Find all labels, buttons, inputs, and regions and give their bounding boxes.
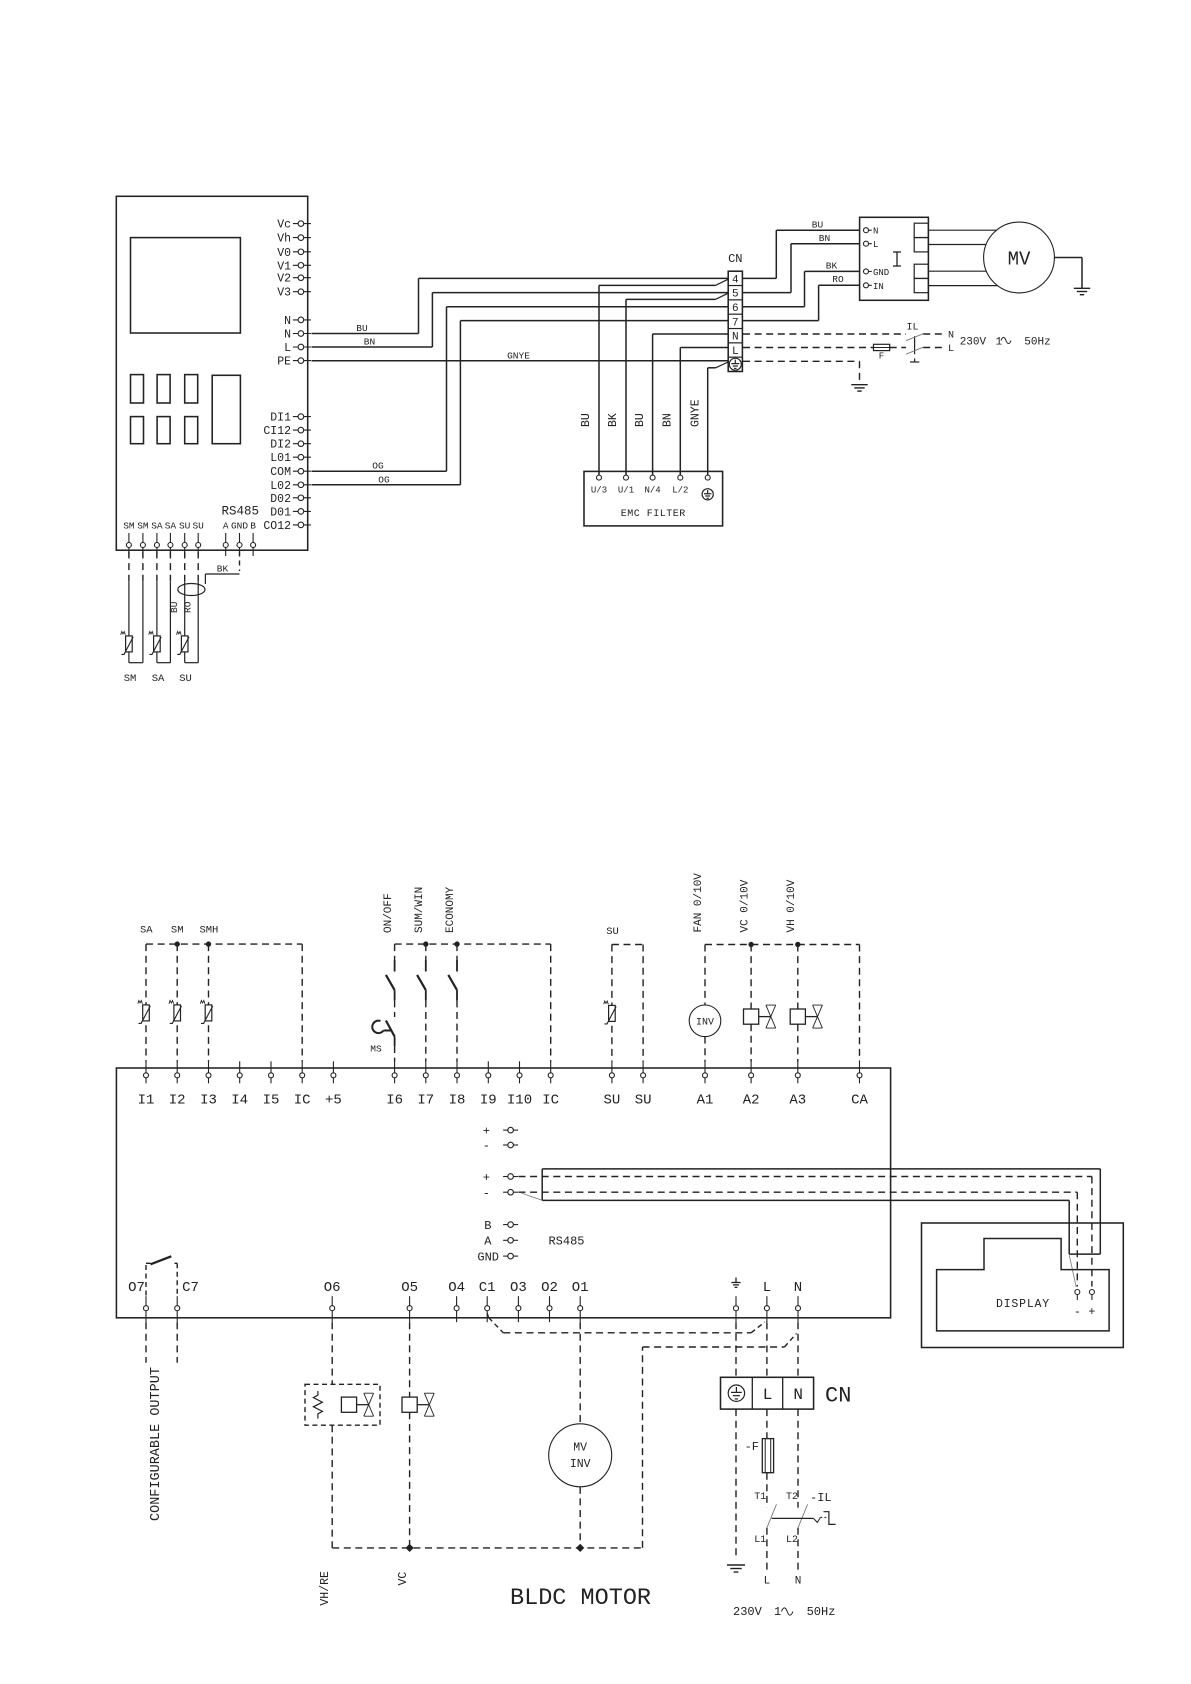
svg-text:SU: SU: [603, 1093, 620, 1109]
svg-text:+: +: [483, 1125, 490, 1139]
svg-text:I5: I5: [263, 1093, 280, 1109]
svg-text:GND: GND: [231, 521, 248, 532]
svg-text:I9: I9: [480, 1093, 497, 1109]
svg-text:CN: CN: [825, 1384, 851, 1409]
svg-text:Vc: Vc: [277, 219, 291, 232]
svg-text:C7: C7: [182, 1280, 199, 1296]
svg-text:A3: A3: [789, 1093, 806, 1109]
svg-text:VC 0/10V: VC 0/10V: [739, 879, 751, 932]
svg-text:L: L: [764, 1576, 771, 1588]
svg-text:IC: IC: [542, 1093, 559, 1109]
svg-text:N: N: [284, 315, 291, 328]
svg-text:OG: OG: [372, 461, 384, 472]
svg-text:L02: L02: [270, 480, 291, 493]
svg-text:A: A: [484, 1235, 492, 1249]
svg-text:PE: PE: [277, 356, 291, 369]
svg-text:SA: SA: [152, 673, 165, 685]
svg-text:CI12: CI12: [263, 425, 291, 438]
svg-text:N: N: [948, 331, 954, 342]
svg-text:O7: O7: [128, 1280, 145, 1296]
svg-text:V2: V2: [277, 273, 291, 286]
svg-text:MV: MV: [1008, 249, 1031, 271]
svg-text:VH/RE: VH/RE: [319, 1571, 332, 1606]
svg-text:-: -: [483, 1187, 490, 1201]
svg-text:SU: SU: [179, 673, 192, 685]
svg-text:I1: I1: [138, 1093, 155, 1109]
svg-text:230V: 230V: [733, 1605, 763, 1619]
svg-text:CN: CN: [728, 252, 742, 266]
svg-text:BU: BU: [169, 601, 180, 613]
svg-text:B: B: [250, 521, 256, 532]
svg-text:ECONOMY: ECONOMY: [445, 886, 457, 933]
svg-text:SM: SM: [137, 521, 149, 532]
svg-text:SM: SM: [123, 521, 135, 532]
svg-text:GNYE: GNYE: [507, 350, 530, 361]
svg-text:BN: BN: [819, 233, 830, 244]
svg-text:+5: +5: [325, 1093, 342, 1109]
svg-text:RS485: RS485: [548, 1235, 584, 1249]
svg-text:A: A: [223, 521, 229, 532]
svg-text:O1: O1: [572, 1280, 589, 1296]
svg-text:D02: D02: [270, 493, 291, 506]
svg-text:L2: L2: [786, 1535, 798, 1546]
svg-text:O4: O4: [448, 1280, 465, 1296]
svg-text:CONFIGURABLE OUTPUT: CONFIGURABLE OUTPUT: [149, 1367, 164, 1521]
svg-text:O5: O5: [401, 1280, 418, 1296]
svg-text:I3: I3: [200, 1093, 217, 1109]
svg-text:N: N: [284, 329, 291, 342]
svg-text:SU: SU: [179, 521, 191, 532]
svg-text:1: 1: [774, 1605, 781, 1619]
svg-text:IC: IC: [294, 1093, 311, 1109]
svg-text:BU: BU: [580, 413, 593, 427]
svg-text:OG: OG: [378, 474, 390, 485]
svg-text:VC: VC: [397, 1572, 410, 1586]
svg-text:SU: SU: [635, 1093, 652, 1109]
svg-text:I6: I6: [386, 1093, 403, 1109]
svg-text:T2: T2: [786, 1492, 798, 1503]
svg-text:GNYE: GNYE: [690, 399, 703, 427]
svg-text:B: B: [484, 1219, 491, 1233]
svg-text:MV: MV: [573, 1442, 587, 1455]
svg-text:SA: SA: [151, 521, 163, 532]
svg-text:L01: L01: [270, 452, 291, 465]
svg-text:I10: I10: [507, 1093, 532, 1109]
svg-text:O2: O2: [541, 1280, 558, 1296]
svg-text:SU: SU: [192, 521, 204, 532]
svg-text:COM: COM: [270, 466, 291, 479]
svg-text:50Hz: 50Hz: [1024, 337, 1050, 349]
svg-text:6: 6: [732, 303, 739, 315]
svg-text:RO: RO: [832, 274, 844, 285]
svg-text:+: +: [1088, 1305, 1095, 1319]
svg-text:RS485: RS485: [221, 505, 259, 519]
svg-text:7: 7: [732, 317, 739, 329]
svg-text:5: 5: [732, 289, 739, 301]
svg-text:T1: T1: [754, 1492, 766, 1503]
svg-text:SM: SM: [171, 925, 184, 937]
svg-text:D01: D01: [270, 506, 291, 519]
svg-text:RO: RO: [183, 601, 194, 613]
svg-text:L/2: L/2: [672, 486, 688, 496]
svg-text:N: N: [795, 1576, 802, 1588]
svg-text:INV: INV: [570, 1458, 591, 1471]
svg-text:L: L: [284, 342, 291, 355]
svg-text:DI2: DI2: [270, 439, 291, 452]
svg-text:Vh: Vh: [277, 233, 291, 246]
svg-text:ON/OFF: ON/OFF: [383, 893, 395, 933]
svg-text:I8: I8: [449, 1093, 466, 1109]
svg-text:L: L: [873, 240, 878, 250]
svg-text:BU: BU: [812, 220, 824, 231]
svg-text:I4: I4: [231, 1093, 248, 1109]
svg-text:A1: A1: [697, 1093, 714, 1109]
svg-text:MS: MS: [370, 1044, 382, 1055]
svg-text:CA: CA: [851, 1093, 868, 1109]
svg-text:O6: O6: [324, 1280, 341, 1296]
svg-text:+: +: [483, 1171, 490, 1185]
svg-text:-: -: [483, 1139, 490, 1153]
svg-text:A2: A2: [743, 1093, 760, 1109]
svg-text:I2: I2: [169, 1093, 186, 1109]
svg-text:-: -: [1074, 1305, 1081, 1319]
svg-text:C1: C1: [479, 1280, 496, 1296]
svg-text:SU: SU: [606, 926, 619, 938]
svg-text:VH 0/10V: VH 0/10V: [786, 879, 798, 932]
svg-text:O3: O3: [510, 1280, 527, 1296]
svg-text:FAN 0/10V: FAN 0/10V: [693, 873, 705, 933]
svg-text:GND: GND: [873, 268, 889, 278]
svg-text:L1: L1: [754, 1535, 766, 1546]
svg-text:U/3: U/3: [591, 486, 607, 496]
svg-text:N/4: N/4: [644, 486, 660, 496]
svg-text:U/1: U/1: [618, 486, 634, 496]
svg-text:-F: -F: [745, 1440, 759, 1454]
svg-text:V0: V0: [277, 247, 291, 260]
svg-text:N: N: [732, 332, 739, 344]
svg-text:BU: BU: [634, 413, 647, 427]
svg-text:BN: BN: [662, 413, 675, 427]
svg-text:230V: 230V: [960, 337, 987, 349]
svg-text:CO12: CO12: [263, 520, 291, 533]
svg-text:F: F: [879, 352, 884, 362]
svg-text:N: N: [793, 1386, 803, 1404]
svg-text:SUM/WIN: SUM/WIN: [414, 887, 426, 933]
svg-text:L: L: [948, 344, 954, 355]
svg-text:4: 4: [732, 274, 739, 286]
svg-text:L: L: [732, 346, 739, 358]
svg-text:EMC FILTER: EMC FILTER: [621, 509, 686, 520]
svg-text:V3: V3: [277, 287, 291, 300]
svg-text:BK: BK: [217, 564, 229, 575]
svg-text:DISPLAY: DISPLAY: [996, 1298, 1050, 1311]
svg-text:BN: BN: [364, 337, 375, 348]
svg-text:-IL: -IL: [810, 1491, 832, 1505]
svg-text:L: L: [763, 1386, 773, 1404]
svg-text:V1: V1: [277, 260, 291, 273]
svg-text:IN: IN: [873, 282, 884, 292]
svg-text:INV: INV: [696, 1018, 714, 1029]
svg-text:N: N: [794, 1280, 802, 1296]
svg-text:I7: I7: [417, 1093, 434, 1109]
svg-text:SM: SM: [124, 673, 137, 685]
svg-text:L: L: [763, 1280, 771, 1296]
svg-text:BLDC MOTOR: BLDC MOTOR: [510, 1585, 651, 1612]
svg-text:SA: SA: [140, 925, 153, 937]
svg-text:50Hz: 50Hz: [807, 1605, 836, 1619]
svg-text:SA: SA: [165, 521, 177, 532]
svg-text:SMH: SMH: [199, 925, 218, 937]
svg-text:BU: BU: [356, 323, 368, 334]
svg-text:GND: GND: [477, 1251, 499, 1265]
svg-text:BK: BK: [826, 261, 838, 272]
svg-text:N: N: [873, 227, 878, 237]
svg-text:DI1: DI1: [270, 412, 291, 425]
svg-text:BK: BK: [607, 413, 620, 427]
svg-text:IL: IL: [906, 323, 918, 334]
